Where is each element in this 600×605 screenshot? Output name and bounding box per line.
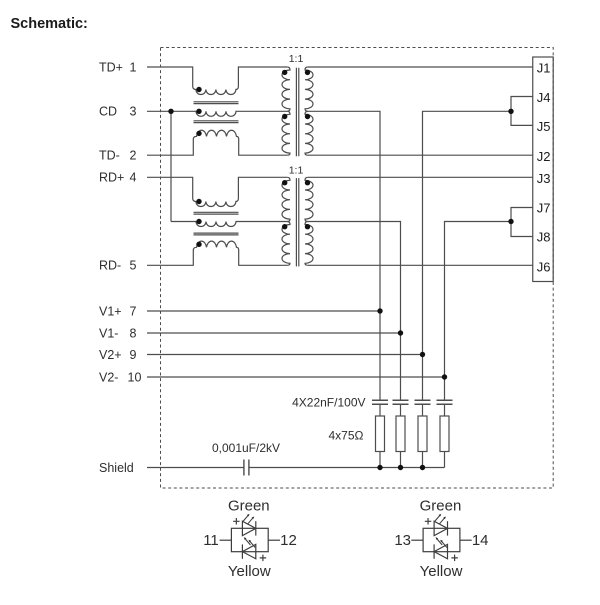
node V2- junction: [442, 374, 447, 379]
wire C2 to R2: [400, 405, 402, 416]
node CD junction: [168, 109, 173, 114]
transformer T1 primary bottom winding: [282, 111, 290, 155]
svg-text:10: 10: [128, 370, 142, 384]
LED green plus sign: [425, 518, 432, 525]
transformer T2 polarity dots: [282, 180, 287, 185]
svg-text:7: 7: [130, 304, 137, 318]
wire lead 14: [460, 539, 472, 541]
capacitor C3 22nF: [415, 400, 431, 404]
choke L2 winding a (RD+ path): [147, 177, 287, 206]
svg-text:V2+: V2+: [99, 348, 122, 362]
transformer T1 primary top winding: [282, 67, 290, 111]
choke L1 core: [194, 102, 239, 123]
wire R3 to shield rail: [422, 452, 424, 468]
svg-text:Schematic:: Schematic:: [11, 16, 88, 32]
wire V1- to node: [147, 332, 401, 334]
svg-text:5: 5: [130, 259, 137, 273]
svg-text:Shield: Shield: [99, 461, 134, 475]
choke L2 polarity dots: [196, 199, 201, 204]
node rail junction 2: [398, 465, 403, 470]
wire T1 secondary top to J1: [308, 66, 533, 68]
transformer T1 core: [296, 68, 298, 157]
svg-text:J5: J5: [537, 119, 551, 134]
choke L1 winding a (TD+ path): [147, 67, 287, 95]
LED green plus sign: [233, 518, 240, 525]
node rail junction 3: [420, 465, 425, 470]
wire V2+ to node: [147, 354, 423, 356]
resistor R2 75 ohm: [396, 416, 405, 452]
svg-text:V1-: V1-: [99, 326, 118, 340]
svg-text:11: 11: [203, 532, 219, 549]
LED green diode: [434, 521, 447, 535]
svg-text:8: 8: [130, 326, 137, 340]
node J4/J5 junction: [508, 109, 513, 114]
wire R4 to shield rail: [444, 452, 446, 468]
svg-text:4X22nF/100V: 4X22nF/100V: [292, 396, 365, 410]
svg-text:12: 12: [280, 532, 297, 549]
node V2+ junction: [420, 352, 425, 357]
svg-text:V1+: V1+: [99, 304, 122, 318]
svg-text:0,001uF/2kV: 0,001uF/2kV: [212, 441, 280, 455]
wire lead 13: [411, 539, 423, 541]
svg-text:1: 1: [130, 60, 137, 74]
resistor R4 75 ohm: [440, 416, 449, 452]
wire C3 to R3: [422, 405, 424, 416]
svg-text:J2: J2: [537, 149, 551, 164]
node J7/J8 junction: [508, 219, 513, 224]
svg-text:J6: J6: [537, 259, 551, 274]
wire J4-J5 tie bar: [511, 97, 533, 126]
choke L2 winding c (RD- path): [147, 241, 287, 265]
choke L2 winding b (CD branch path): [171, 222, 287, 227]
wire V2- to node: [147, 376, 445, 378]
wire T1 secondary center tap down to V1+ rail: [308, 111, 380, 399]
LED yellow emission arrows: [245, 538, 251, 545]
capacitor C5 0,001uF/2kV: [244, 460, 249, 476]
capacitor C2 22nF: [393, 400, 409, 404]
LED yellow diode: [434, 544, 447, 558]
node V1- junction: [398, 330, 403, 335]
choke L1 winding b (CD path): [147, 111, 287, 116]
svg-text:9: 9: [130, 348, 137, 362]
wire T1 secondary bottom to J2: [308, 154, 533, 156]
LED green diode: [242, 521, 255, 535]
wire C1 to R1: [379, 405, 381, 416]
choke L2 core: [194, 212, 239, 235]
capacitor C1 22nF: [372, 400, 388, 404]
transformer T2 primary top winding: [282, 177, 290, 221]
LED green emission arrows: [243, 515, 249, 522]
svg-text:RD+: RD+: [99, 171, 124, 185]
svg-text:J4: J4: [537, 90, 551, 105]
wire J7-J8 tie bar: [511, 208, 533, 237]
svg-text:Green: Green: [228, 497, 270, 514]
node rail junction 1: [377, 465, 382, 470]
svg-text:J3: J3: [537, 171, 551, 186]
wire shield rail left: [147, 467, 244, 469]
resistor R1 75 ohm: [376, 416, 385, 452]
svg-text:4: 4: [130, 171, 137, 185]
LED body box (13/14): [423, 528, 460, 551]
svg-text:4x75Ω: 4x75Ω: [329, 429, 364, 443]
svg-text:2: 2: [130, 149, 137, 163]
capacitor C4 22nF: [437, 400, 453, 404]
transformer T2 primary bottom winding: [282, 222, 290, 266]
wire T2 secondary center tap down to V1- rail: [308, 222, 401, 400]
transformer T2 secondary top winding: [305, 177, 313, 221]
svg-text:V2-: V2-: [99, 370, 118, 384]
wire shield rail right: [249, 467, 445, 469]
LED yellow plus sign: [451, 555, 458, 562]
dashed schematic boundary: [161, 48, 554, 489]
svg-text:TD-: TD-: [99, 149, 120, 163]
transformer T2 secondary bottom winding: [305, 222, 313, 266]
wire lead 12: [268, 539, 280, 541]
LED yellow diode: [242, 544, 255, 558]
transformer T1 polarity dots: [282, 70, 287, 75]
svg-text:Green: Green: [420, 497, 462, 514]
svg-text:J1: J1: [537, 61, 551, 76]
wire J4/J5 node down to V2+ rail: [423, 111, 512, 399]
LED yellow plus sign: [260, 555, 267, 562]
resistor R3 75 ohm: [418, 416, 427, 452]
svg-text:Yellow: Yellow: [420, 563, 463, 580]
wire CD branch down to choke L2: [170, 111, 172, 221]
svg-text:RD-: RD-: [99, 259, 121, 273]
svg-text:14: 14: [472, 532, 489, 549]
svg-text:13: 13: [394, 532, 411, 549]
svg-text:3: 3: [130, 105, 137, 119]
wire T2 secondary bottom to J6: [308, 264, 533, 266]
wire lead 11: [220, 539, 232, 541]
LED body box (11/12): [231, 528, 268, 551]
svg-text:J8: J8: [537, 229, 551, 244]
transformer T2 core: [296, 178, 298, 266]
choke L1 winding c (TD- path): [147, 130, 287, 155]
svg-text:Yellow: Yellow: [228, 563, 271, 580]
svg-text:CD: CD: [99, 105, 117, 119]
wire R2 to shield rail: [400, 452, 402, 468]
wire J7/J8 node down to V2- rail: [445, 222, 512, 400]
LED yellow emission arrows: [436, 538, 442, 545]
svg-text:1:1: 1:1: [289, 165, 304, 177]
wire T2 secondary top to J3: [308, 176, 533, 178]
transformer T1 secondary bottom winding: [305, 111, 313, 155]
connector J box: [533, 57, 553, 282]
svg-text:TD+: TD+: [99, 60, 123, 74]
node V1+ junction: [377, 308, 382, 313]
choke L1 polarity dots: [196, 87, 201, 92]
transformer T1 secondary top winding: [305, 67, 313, 111]
LED green emission arrows: [435, 515, 441, 522]
wire C4 to R4: [444, 405, 446, 416]
svg-text:J7: J7: [537, 200, 551, 215]
svg-text:1:1: 1:1: [289, 53, 304, 65]
wire V1+ to node: [147, 310, 380, 312]
wire R1 to shield rail: [379, 452, 381, 468]
